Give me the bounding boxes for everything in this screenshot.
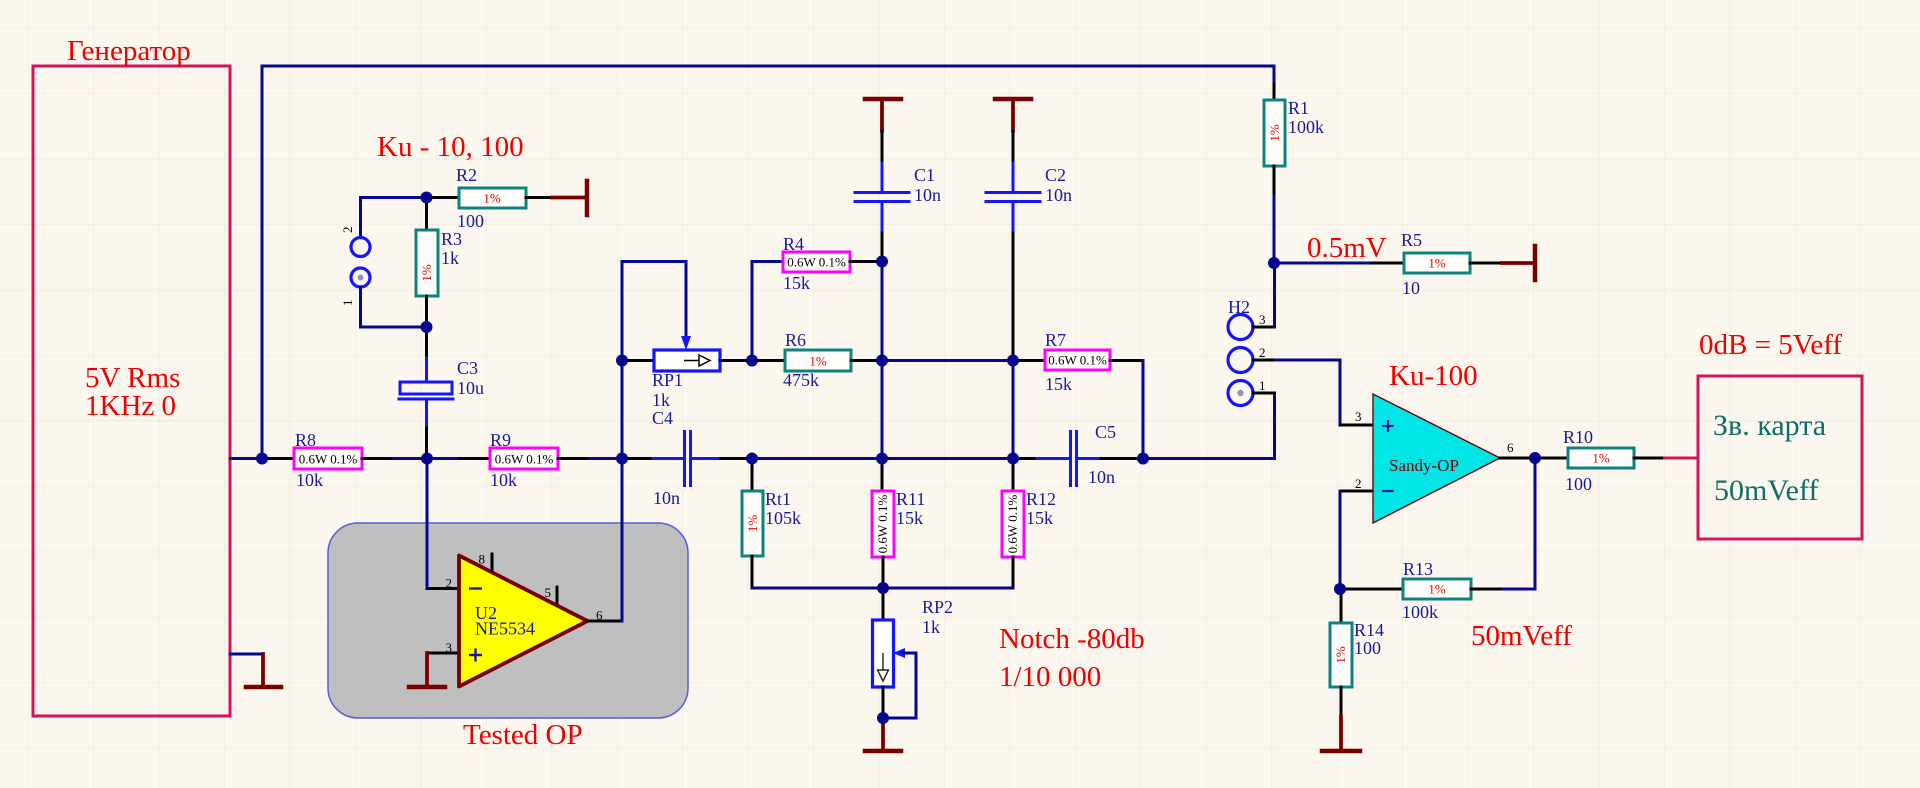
svg-text:10u: 10u [457, 378, 484, 398]
svg-text:5: 5 [545, 585, 552, 600]
wire main row seg3 [558, 457, 622, 460]
junction U2 output node [616, 453, 628, 465]
svg-text:1KHz 0: 1KHz 0 [85, 390, 176, 422]
op-amp Sandy-OP [1340, 394, 1535, 523]
ground RP2 [865, 718, 901, 751]
svg-text:475k: 475k [783, 370, 819, 390]
wire C1 node riser [881, 262, 884, 361]
svg-text:R3: R3 [441, 229, 462, 249]
svg-text:Генератор: Генератор [67, 35, 191, 67]
svg-text:Tested OP: Tested OP [463, 719, 583, 751]
svg-text:100: 100 [1354, 638, 1381, 658]
resistor R12 [1002, 459, 1056, 589]
connector H2 [1228, 297, 1266, 406]
svg-text:2: 2 [340, 227, 355, 234]
svg-text:3: 3 [1259, 312, 1266, 327]
Tested OP shaded box [328, 523, 688, 718]
resistor Rt1 [742, 459, 801, 589]
resistor R7 [1013, 330, 1143, 459]
svg-text:C2: C2 [1045, 165, 1066, 185]
resistor R14 [1330, 589, 1384, 717]
wire U2 output [588, 459, 622, 622]
svg-text:100k: 100k [1402, 602, 1438, 622]
resistor R13 [1340, 559, 1503, 622]
svg-text:1: 1 [1259, 378, 1266, 393]
svg-text:0.6W 0.1%: 0.6W 0.1% [1048, 353, 1107, 368]
svg-text:100: 100 [457, 211, 484, 231]
svg-text:R1: R1 [1288, 98, 1309, 118]
svg-text:R11: R11 [896, 489, 925, 509]
resistor R11 [872, 459, 925, 589]
svg-text:1k: 1k [441, 248, 459, 268]
svg-text:C1: C1 [914, 165, 935, 185]
junction C2-R7 node [1007, 355, 1019, 367]
svg-text:10n: 10n [1088, 467, 1115, 487]
svg-text:C4: C4 [652, 408, 673, 428]
wire Sandy inverting input riser [1339, 491, 1342, 589]
resistor R6 [752, 330, 882, 390]
wire R2 row left [361, 198, 427, 238]
svg-text:R7: R7 [1045, 330, 1066, 350]
svg-text:10: 10 [1402, 278, 1420, 298]
svg-text:R13: R13 [1403, 559, 1433, 579]
svg-text:0.6W 0.1%: 0.6W 0.1% [299, 452, 358, 467]
junction RP1-R6 node [746, 355, 758, 367]
svg-text:10n: 10n [653, 488, 680, 508]
svg-text:R9: R9 [490, 430, 511, 450]
wire C2 row to main row [1012, 361, 1015, 459]
svg-text:RP1: RP1 [652, 370, 683, 390]
svg-text:NE5534: NE5534 [475, 619, 535, 639]
svg-text:0dB = 5Veff: 0dB = 5Veff [1699, 329, 1842, 361]
connector pin 1 [340, 268, 370, 306]
svg-text:1/10 000: 1/10 000 [999, 661, 1101, 693]
svg-text:10k: 10k [296, 470, 323, 490]
svg-text:0.6W 0.1%: 0.6W 0.1% [787, 255, 846, 270]
op-amp U2 [446, 552, 604, 687]
potentiometer RP1 [622, 350, 752, 428]
junction R2-R3 node [421, 192, 433, 204]
wire H2 pin3 [1253, 263, 1275, 327]
svg-text:R4: R4 [783, 234, 804, 254]
svg-text:15k: 15k [783, 273, 810, 293]
svg-text:105k: 105k [765, 508, 801, 528]
wire H2 pin1 stub [1253, 392, 1275, 395]
svg-text:50mVeff: 50mVeff [1714, 474, 1818, 507]
junction R11 top node [876, 453, 888, 465]
ground C2 [995, 99, 1031, 131]
svg-text:1%: 1% [483, 191, 501, 206]
wire R4 riser [752, 262, 783, 361]
svg-text:0.6W 0.1%: 0.6W 0.1% [1005, 495, 1020, 554]
junction R8-R9 node [421, 453, 433, 465]
wire RP2 wiper [883, 648, 916, 718]
label 50mVeff red [1471, 620, 1572, 652]
svg-text:1%: 1% [809, 354, 827, 369]
connector pin 2 [340, 227, 370, 257]
wire generator output [230, 457, 262, 460]
junction R13-R14 node [1334, 583, 1346, 595]
wire RP1 left riser [621, 262, 624, 459]
junction R12 top node [1007, 453, 1019, 465]
svg-text:2: 2 [1259, 345, 1266, 360]
svg-text:0.5mV: 0.5mV [1307, 232, 1387, 264]
ground C1 [865, 99, 901, 131]
wire main row seg5 to H2 pin1 [1143, 393, 1275, 459]
resistor R3 [416, 198, 462, 328]
capacitor C4 [622, 432, 752, 509]
svg-text:1%: 1% [1333, 646, 1348, 664]
svg-text:8: 8 [479, 552, 486, 567]
svg-text:RP2: RP2 [922, 597, 953, 617]
svg-text:Ku-100: Ku-100 [1389, 360, 1478, 392]
wire RP1 wiper loop [622, 262, 691, 351]
svg-text:R10: R10 [1563, 427, 1593, 447]
wire generator lower [230, 653, 263, 656]
wire notch bottom row [752, 587, 1013, 590]
wire connector to R3 bottom node [361, 287, 427, 327]
svg-text:15k: 15k [896, 508, 923, 528]
svg-text:Notch -80db: Notch -80db [999, 623, 1145, 655]
junction RP1 left node [616, 355, 628, 367]
capacitor C3 [399, 327, 484, 459]
resistor R10 [1535, 427, 1663, 494]
svg-text:R12: R12 [1026, 489, 1056, 509]
capacitor C5 [1013, 422, 1143, 487]
svg-text:Sandy-OP: Sandy-OP [1389, 456, 1459, 475]
svg-text:1%: 1% [419, 264, 434, 282]
svg-text:R2: R2 [456, 165, 477, 185]
wire main row seg2 [362, 457, 490, 460]
resistor R8 [294, 430, 362, 490]
svg-text:10k: 10k [490, 470, 517, 490]
svg-text:Ku - 10, 100: Ku - 10, 100 [377, 131, 524, 163]
generator box [33, 35, 230, 716]
svg-text:2: 2 [446, 576, 453, 591]
svg-text:C5: C5 [1095, 422, 1116, 442]
wire 0.5mV node [1274, 262, 1404, 265]
svg-text:Зв. карта: Зв. карта [1713, 409, 1826, 442]
svg-text:100: 100 [1565, 474, 1592, 494]
svg-text:100k: 100k [1288, 117, 1324, 137]
resistor R5 [1401, 230, 1502, 298]
ground R2 [552, 181, 587, 215]
junction Sandy output node [1529, 452, 1541, 464]
ground R5 [1502, 246, 1535, 280]
svg-text:0.6W 0.1%: 0.6W 0.1% [495, 452, 554, 467]
ground generator [246, 654, 281, 687]
junction generator output node [256, 453, 268, 465]
svg-text:10n: 10n [914, 185, 941, 205]
junction RP2 ground node [877, 712, 889, 724]
svg-text:1%: 1% [1592, 451, 1610, 466]
svg-text:Rt1: Rt1 [765, 489, 791, 509]
svg-text:R14: R14 [1354, 620, 1384, 640]
resistor R2 [426, 165, 552, 231]
resistor R4 [783, 234, 882, 293]
junction R3-C3 node [421, 321, 433, 333]
svg-text:1: 1 [340, 300, 355, 307]
svg-text:15k: 15k [1026, 508, 1053, 528]
svg-text:50mVeff: 50mVeff [1471, 620, 1572, 652]
svg-text:1%: 1% [745, 515, 760, 533]
wire output to sound card [1663, 457, 1698, 460]
svg-text:0.6W 0.1%: 0.6W 0.1% [875, 495, 890, 554]
wire C1 row to main row [881, 361, 884, 459]
svg-text:1k: 1k [922, 617, 940, 637]
wire R6 row mid [882, 359, 1013, 362]
junction notch bottom node [877, 582, 889, 594]
svg-text:3: 3 [1355, 409, 1362, 424]
wire top feedback [262, 66, 1274, 459]
label 0.5mV [1307, 232, 1387, 264]
junction C5 right node [1137, 453, 1149, 465]
svg-text:C3: C3 [457, 358, 478, 378]
potentiometer RP2 [873, 588, 954, 718]
ground R14 [1322, 717, 1360, 751]
svg-text:R5: R5 [1401, 230, 1422, 250]
resistor R9 [490, 430, 558, 490]
label Ku-100 [1389, 360, 1478, 392]
ground U2 pin3 [409, 653, 459, 687]
svg-text:1k: 1k [652, 390, 670, 410]
svg-text:6: 6 [1507, 440, 1514, 455]
wire main row seg1 [262, 457, 294, 460]
wire U2 inverting input [427, 459, 459, 589]
svg-text:15k: 15k [1045, 374, 1072, 394]
wire R13 to output node [1503, 458, 1535, 589]
capacitor C2 [986, 131, 1072, 361]
svg-text:3: 3 [446, 640, 453, 655]
resistor R1 [1264, 84, 1324, 263]
svg-text:10n: 10n [1045, 185, 1072, 205]
junction 0.5mV node [1268, 257, 1280, 269]
label Ku - 10, 100 [377, 131, 524, 163]
svg-text:1%: 1% [1267, 124, 1282, 142]
sound card box [1698, 376, 1862, 539]
wire main row seg4 [752, 457, 1013, 460]
capacitor C1 [855, 131, 941, 262]
svg-text:R8: R8 [295, 430, 316, 450]
svg-text:2: 2 [1355, 476, 1362, 491]
svg-text:1%: 1% [1428, 582, 1446, 597]
label Notch [999, 623, 1145, 693]
junction C4-Rt1 node [746, 453, 758, 465]
svg-text:1%: 1% [1428, 256, 1446, 271]
wire H2 pin2 to Sandy [1253, 360, 1340, 425]
svg-text:R6: R6 [785, 330, 806, 350]
label Tested OP [463, 719, 583, 751]
junction R4-C1 node [876, 256, 888, 268]
label 0dB = 5Veff [1699, 329, 1842, 361]
junction R6-C1 node [876, 355, 888, 367]
